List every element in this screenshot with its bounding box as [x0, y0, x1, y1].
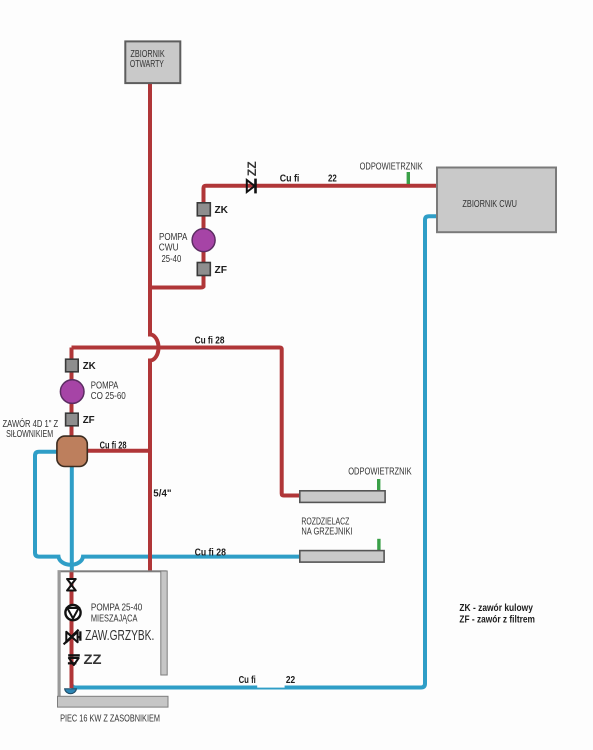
svg-text:PIEC 16 KW Z ZASOBNIKIEM: PIEC 16 KW Z ZASOBNIKIEM: [60, 713, 160, 724]
valve ZK (CWU pump): [197, 203, 210, 216]
zbiornik otwarty box: [125, 41, 180, 83]
svg-text:CWU: CWU: [159, 243, 179, 254]
svg-text:ODPOWIETRZNIK: ODPOWIETRZNIK: [360, 161, 424, 172]
wire: blue return from 4D valve left, down and across to lower manifold (with hop under vertical blue pipe): [35, 452, 300, 565]
svg-text:ZBIORNIK CWU: ZBIORNIK CWU: [462, 199, 517, 210]
svg-text:CO 25-60: CO 25-60: [91, 391, 127, 402]
svg-text:POMPA 25-40: POMPA 25-40: [91, 603, 143, 614]
svg-text:Cu fi 28: Cu fi 28: [100, 440, 127, 451]
wire: blue furnace outlet along bottom, up right side to ZBIORNIK CWU: [72, 216, 439, 687]
svg-text:ZK: ZK: [83, 361, 97, 372]
svg-text:MIESZAJĄCA: MIESZAJĄCA: [91, 613, 138, 624]
svg-text:POMPA: POMPA: [91, 381, 119, 392]
zawor 4D z silownikiem (mixing valve): [57, 436, 87, 466]
check valve ZZ on CWU line: [247, 161, 259, 193]
odpowietrznik (manifold) green vent: [377, 479, 380, 491]
wire: red vertical through ZK, POMPA CO, ZF to 4D valve: [70, 348, 74, 438]
furnace outline PIEC 16 KW: [58, 570, 169, 707]
check valve ZZ (furnace riser): [68, 654, 80, 665]
svg-text:Cu fi: Cu fi: [239, 674, 256, 686]
wire: red from ZBIORNIK OTWARTY down (hop over Cu fi 28 line) continuing as 5/4" pipe to furnace: [150, 83, 159, 572]
svg-text:5/4": 5/4": [153, 488, 171, 500]
white text-box notch over blue line between "Cu fi" and "22": [257, 685, 284, 687]
zbiornik CWU box: [437, 168, 556, 233]
svg-text:22: 22: [286, 674, 295, 686]
svg-text:ZF - zawór z filtrem: ZF - zawór z filtrem: [459, 615, 535, 626]
svg-text:ZZ: ZZ: [247, 161, 259, 176]
rozdzielacz lower manifold: [300, 551, 384, 563]
rozdzielacz upper manifold: [300, 491, 385, 503]
svg-text:SIŁOWNIKIEM: SIŁOWNIKIEM: [6, 429, 53, 440]
valve ZF (CWU pump): [197, 263, 210, 276]
svg-text:OTWARTY: OTWARTY: [130, 59, 164, 70]
svg-text:ZF: ZF: [215, 265, 228, 276]
odpowietrznik (top) green vent: [407, 172, 410, 184]
wire: blue from 4D valve bottom down into furnace: [70, 467, 74, 573]
green vent lower manifold: [377, 539, 380, 551]
node: blue elbow at furnace bottom: [65, 689, 77, 694]
wire: red Cu fi 28 horizontal, corner down to upper manifold: [72, 348, 300, 496]
pump POMPA CO 25-60: [60, 380, 84, 404]
svg-text:Cu fi: Cu fi: [280, 174, 300, 185]
svg-text:25-40: 25-40: [162, 254, 182, 265]
pump POMPA CWU 25-40: [192, 229, 215, 252]
svg-text:POMPA: POMPA: [159, 232, 188, 243]
valve ZK (CO pump): [66, 359, 79, 372]
svg-text:ZK: ZK: [215, 205, 229, 216]
svg-text:NA GRZEJNIKI: NA GRZEJNIKI: [301, 527, 352, 538]
svg-text:ZZ: ZZ: [84, 652, 102, 667]
svg-text:ZF: ZF: [83, 415, 95, 426]
zawor grzybkowy (bowtie with stem): [64, 630, 82, 645]
wire: red inside furnace through mixing pump string: [70, 572, 74, 688]
wire: red vertical through ZK, POMPA CWU, ZF: [202, 203, 206, 288]
wire: red corner joining CWU pump string to main riser: [150, 275, 204, 288]
svg-text:ZAW.GRZYBK.: ZAW.GRZYBK.: [85, 628, 154, 644]
svg-text:Cu fi 28: Cu fi 28: [195, 336, 225, 347]
wire: red CWU supply horizontal to ZBIORNIK CWU: [204, 186, 439, 203]
svg-text:Cu fi 28: Cu fi 28: [195, 547, 227, 558]
valve (vertical bowtie) on furnace riser: [67, 579, 76, 585]
svg-text:ODPOWIETRZNIK: ODPOWIETRZNIK: [348, 467, 412, 478]
svg-text:ZK - zawór kulowy: ZK - zawór kulowy: [459, 603, 533, 614]
valve ZF (CO pump): [66, 413, 79, 426]
svg-text:22: 22: [328, 174, 337, 185]
pump POMPA 25-40 MIESZAJACA (circle with triangle): [65, 605, 80, 620]
wire: red from 4D valve right to 5/4" riser: [87, 449, 150, 453]
